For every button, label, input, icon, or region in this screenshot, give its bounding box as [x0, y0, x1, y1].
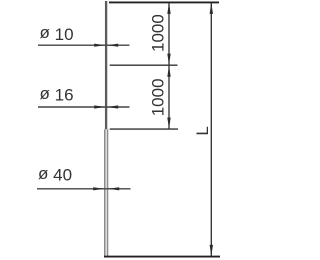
svg-text:1000: 1000 [148, 78, 167, 116]
svg-text:L: L [193, 126, 212, 135]
svg-text:ø 16: ø 16 [40, 84, 74, 105]
svg-text:ø 40: ø 40 [38, 164, 72, 185]
svg-text:ø 10: ø 10 [40, 23, 74, 44]
svg-text:1000: 1000 [148, 14, 167, 52]
